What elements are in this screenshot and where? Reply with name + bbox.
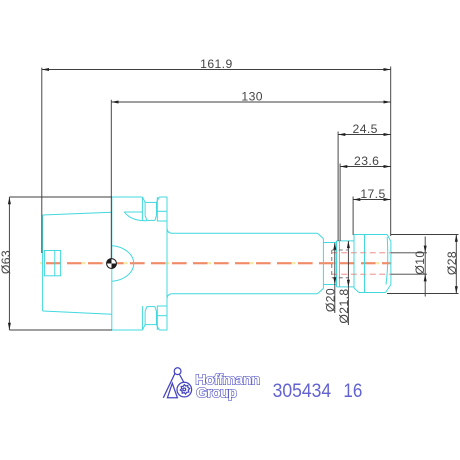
centerline (red dash) [40, 262, 391, 264]
collet bottom (D21.8) [337, 286, 355, 288]
ext line left 161.9 [41, 68, 43, 253]
Hoffmann Group logo mark [163, 368, 191, 398]
svg-text:16: 16 [343, 380, 362, 402]
svg-text:Ø21.8: Ø21.8 [337, 288, 351, 323]
gear center [183, 388, 186, 391]
article number [273, 380, 363, 402]
nut bottom-left chamfer [354, 288, 359, 293]
nut right face [390, 242, 392, 285]
drive slot scallop top [124, 211, 142, 213]
collet hidden outline (gray dashed) [332, 250, 348, 278]
nut top edge [354, 234, 387, 236]
dim line 130 [111, 101, 390, 103]
ext line gauge 130 [110, 100, 112, 259]
inner triangle [167, 383, 177, 398]
nut bottom edge [359, 292, 386, 294]
logo text [195, 372, 260, 402]
svg-text:Ø10: Ø10 [413, 250, 427, 274]
svg-text:Ø28: Ø28 [445, 251, 459, 275]
ext line right end [390, 67, 392, 237]
cone base vertical [322, 239, 324, 289]
flange top surface [112, 196, 143, 198]
neck top (D20) [323, 242, 336, 244]
nut cap curve [386, 237, 388, 285]
svg-text:24.5: 24.5 [353, 122, 378, 136]
svg-text:23.6: 23.6 [354, 154, 379, 168]
dim line D21.8 [347, 241, 349, 325]
back line [163, 373, 175, 398]
ext line 24.5 [337, 132, 339, 242]
body bottom with fillet [167, 294, 318, 299]
svg-text:Ø63: Ø63 [0, 250, 13, 274]
arrows 17.5 [353, 198, 360, 201]
V-groove top opening verticals [141, 197, 143, 221]
taper top line [43, 212, 112, 215]
flange step lines top right [157, 210, 167, 212]
flange rear face [166, 197, 168, 330]
arrows D63 [8, 197, 11, 204]
arrows D28 [455, 235, 458, 242]
dimension lines (gray) [9, 67, 458, 331]
nut bottom-right chamfer [386, 285, 391, 293]
svg-text:130: 130 [241, 89, 263, 103]
dim line 24.5 [338, 134, 391, 136]
V-groove top [142, 197, 145, 202]
arrows D21.8 [347, 241, 350, 248]
dim line 17.5 [353, 199, 391, 201]
nut top-right chamfer [387, 235, 391, 242]
part outline group (cyan) [43, 197, 391, 330]
gear cog [180, 385, 189, 395]
body top with fillet [167, 228, 318, 233]
HSK taper left face [42, 215, 44, 311]
ext line D28 top [391, 234, 459, 236]
head circle [174, 368, 181, 375]
collet top (D21.8) [337, 240, 355, 242]
arrows 23.6 [340, 165, 347, 168]
nut left face [353, 235, 355, 289]
svg-text:305434: 305434 [273, 380, 332, 402]
ext line D28 bottom [387, 293, 459, 295]
dim line 161.9 [42, 69, 391, 71]
arrowheads [8, 68, 458, 330]
ext line 23.6 [339, 164, 341, 242]
svg-text:Ø20: Ø20 [323, 288, 337, 312]
bore hidden lines (red dashed, D10) [332, 253, 391, 274]
svg-text:17.5: 17.5 [360, 187, 385, 201]
nut inner vertical [364, 235, 366, 293]
collet step verticals [336, 241, 338, 287]
cone top [318, 233, 324, 238]
coolant tube dome [112, 246, 134, 282]
arrows 130 [111, 101, 118, 104]
V-groove bottom [142, 325, 145, 330]
dim line 23.6 [340, 166, 391, 168]
slot inner vertical [54, 251, 56, 276]
taper bottom line [43, 311, 112, 314]
V-groove bottom opening verticals [141, 306, 143, 330]
cone bottom [318, 288, 324, 293]
ext line D63 bottom [9, 329, 112, 331]
flange step lines bottom right [157, 315, 167, 317]
neck bottom (D20) [323, 284, 336, 286]
ext line D63 top [9, 196, 112, 198]
flange bottom surface [112, 329, 143, 331]
dim line D63 [8, 197, 10, 330]
ext line D10 bottom [391, 273, 427, 275]
arrows 161.9 [42, 68, 49, 71]
coolant slot rect on face [44, 251, 60, 276]
dimension texts [0, 57, 459, 324]
arm line [180, 375, 185, 384]
flange front face (gauge plane) [111, 197, 113, 330]
ext line 17.5 [352, 197, 354, 236]
ext line D10 top [391, 252, 427, 254]
dim line D20 [334, 243, 336, 313]
arrows 24.5 [338, 133, 345, 136]
arrows D20 [333, 243, 336, 250]
gear outer circle [177, 382, 192, 397]
svg-text:161.9: 161.9 [200, 57, 233, 71]
dim line D28 [455, 235, 457, 294]
svg-text:Group: Group [196, 384, 237, 401]
dim line D10 [424, 237, 426, 297]
arrows D10 [424, 246, 427, 253]
datum dot at gauge plane [107, 259, 117, 269]
